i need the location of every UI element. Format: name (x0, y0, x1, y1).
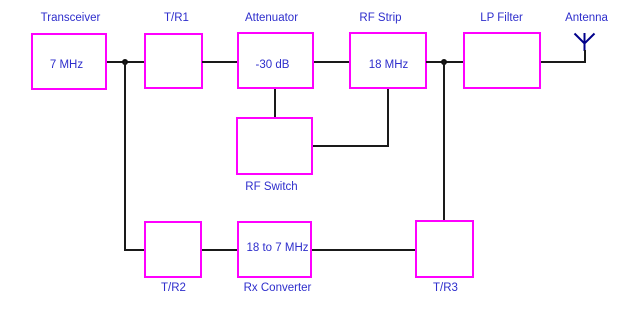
wire Attenuator to RF Strip (314, 61, 349, 63)
box T/R1 (144, 33, 203, 89)
wire Attenuator down to RF Switch (274, 89, 276, 117)
box RF Switch (236, 117, 313, 175)
box T/R2 (144, 221, 202, 278)
label RF Strip (330, 12, 431, 24)
box Attenuator (237, 32, 314, 89)
label Transceiver (20, 12, 121, 24)
wire RF Strip to LP Filter (426, 61, 463, 63)
wire Rx Converter to T/R3 (312, 249, 415, 251)
label T/R1 (126, 12, 227, 24)
label Rx Converter (227, 282, 328, 294)
wire T/R1 to Attenuator (202, 61, 237, 63)
wire antenna stem lower (584, 50, 586, 63)
value label 7 MHz (36, 59, 97, 71)
value label 18 to 7 MHz (227, 242, 328, 254)
wire Transceiver to T/R1 (107, 61, 144, 63)
junction node B (441, 59, 447, 65)
label T/R3 (395, 282, 496, 294)
label T/R2 (123, 282, 224, 294)
box RF Strip (349, 32, 427, 89)
wire RF Switch right horizontal (313, 145, 389, 147)
wire node B down to T/R3 (443, 61, 445, 220)
wire into T/R2 (124, 249, 144, 251)
label Antenna (536, 12, 624, 24)
box Transceiver (31, 33, 107, 90)
wire LP Filter to antenna (541, 61, 586, 63)
junction node A (122, 59, 128, 65)
box LP Filter (463, 32, 541, 89)
wire node A down to T/R2 row (124, 61, 126, 251)
wire up to RF Strip bottom (387, 89, 389, 147)
label LP Filter (451, 12, 552, 24)
wire T/R2 to Rx Converter (202, 249, 237, 251)
value label 18 MHz (338, 59, 439, 71)
label Attenuator (221, 12, 322, 24)
antenna symbol (565, 28, 605, 56)
value label -30 dB (222, 59, 323, 71)
box T/R3 (415, 220, 474, 278)
label RF Switch (221, 181, 322, 193)
box Rx Converter (237, 221, 312, 278)
